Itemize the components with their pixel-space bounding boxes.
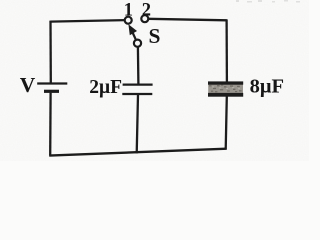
wire: top-right horizontal (switch contact 2 to right branch) (148, 19, 227, 21)
svg-text:2μF: 2μF (89, 77, 122, 98)
switch S: contact 2 circle (141, 15, 148, 22)
svg-text:S: S (149, 24, 161, 48)
wire: bottom horizontal (slightly tilted as in scan) (49, 149, 226, 156)
battery V: long positive plate (37, 82, 67, 84)
wire: left vertical upper (top wire down to battery + plate) (49, 21, 52, 83)
svg-text:8μF: 8μF (250, 75, 284, 97)
wire: left vertical lower (battery - plate down to bottom wire) (49, 93, 52, 156)
svg-text:V: V (20, 73, 36, 97)
wire: right vertical upper (top wire down to 8uF capacitor) (225, 19, 228, 82)
switch S: contact 1 circle (125, 17, 132, 24)
svg-text:2: 2 (142, 1, 151, 21)
capacitor C1 2uF: top plate (123, 83, 153, 85)
wire: middle vertical lower (2uF capacitor down to bottom wire) (137, 95, 138, 154)
wire: right vertical lower (8uF capacitor down to bottom wire) (226, 96, 227, 149)
svg-text:1: 1 (124, 1, 133, 21)
battery V: short negative plate (thick) (44, 90, 59, 93)
switch S: pole arm with arrowhead pointing at contact 1 (128, 24, 137, 40)
capacitor C2 8uF: gray dielectric block (208, 84, 243, 93)
capacitor C2 8uF: top plate (thick bar) (208, 81, 243, 84)
capacitor C1 2uF: bottom plate (122, 93, 152, 95)
wire: middle vertical upper (switch pole down to 2uF capacitor) (137, 47, 140, 84)
wire: top-left horizontal (battery to switch contact 1) (50, 20, 125, 22)
capacitor C2 8uF: bottom plate (thick bar) (208, 93, 243, 97)
switch S: pole circle (134, 40, 141, 47)
scan smudge top right (236, 0, 300, 3)
